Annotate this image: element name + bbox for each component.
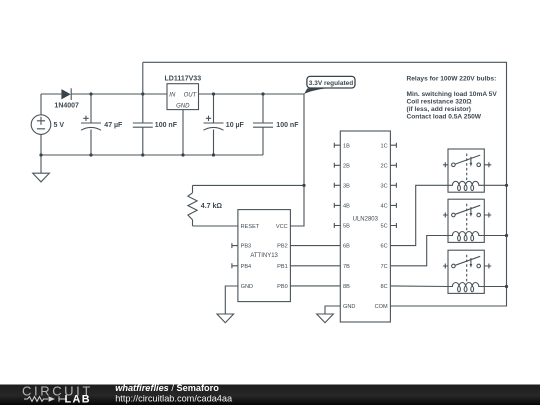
svg-text:RESET: RESET (241, 224, 260, 230)
wire diode cathode to regulator IN (71, 93, 167, 95)
wire resistor to RESET (193, 225, 238, 227)
wire regulator OUT 3.3V to VCC (199, 94, 305, 226)
svg-text:IN: IN (169, 92, 176, 98)
wire 5V top rail from input to relay commons (143, 62, 507, 306)
svg-text:1B: 1B (343, 143, 350, 149)
pin PB4 stub (232, 263, 238, 268)
logo diode glyph (49, 396, 56, 402)
svg-text:GND: GND (176, 104, 190, 110)
wire VCC node to reset pull-up (193, 184, 305, 186)
wire top rail drop to input node (142, 62, 144, 94)
svg-text:COM: COM (375, 304, 388, 310)
svg-text:8B: 8B (343, 284, 350, 290)
svg-text:Contact load 0.5A 250W: Contact load 0.5A 250W (407, 113, 482, 120)
wire ULN GND to ground (325, 306, 340, 314)
diode D1 1N4007 (61, 88, 71, 100)
svg-text:5B: 5B (343, 224, 350, 230)
svg-text:PB1: PB1 (277, 264, 288, 270)
footer bar (0, 385, 540, 405)
svg-text:Coil resistance 320Ω: Coil resistance 320Ω (407, 98, 473, 105)
svg-text:100 nF: 100 nF (155, 122, 178, 129)
wire relay K1 coil to rail (484, 184, 506, 186)
note relay specs (407, 75, 498, 120)
svg-text:Relays for 100W 220V bulbs:: Relays for 100W 220V bulbs: (407, 75, 497, 82)
wire relay K2 coil to rail (484, 235, 506, 237)
svg-text:GND: GND (343, 304, 355, 310)
wire ground bottom rail (41, 154, 263, 156)
pin 5B stub (334, 223, 340, 228)
voltage regulator U1 LD1117V33 (167, 84, 199, 110)
svg-text:LD1117V33: LD1117V33 (165, 76, 202, 83)
svg-text:1N4007: 1N4007 (54, 103, 79, 110)
svg-text:4C: 4C (381, 204, 388, 210)
wire PB1 to 7B (290, 265, 340, 267)
pin 1C stub (390, 143, 396, 148)
pin 3C stub (390, 183, 396, 188)
svg-text:4B: 4B (343, 204, 350, 210)
wire 8C to relay K3 coil (390, 285, 448, 288)
ground ATTINY (217, 314, 234, 323)
transistor array U3 ULN2803 (340, 131, 390, 322)
svg-text:8C: 8C (381, 284, 388, 290)
ground main (33, 155, 50, 182)
svg-text:OUT: OUT (184, 92, 198, 98)
svg-text:GND: GND (241, 284, 253, 290)
svg-text:PB2: PB2 (277, 244, 288, 250)
wire PB2 to 6B (290, 245, 340, 247)
wire source to diode anode (41, 93, 61, 95)
svg-text:5C: 5C (381, 224, 388, 230)
svg-text:47 µF: 47 µF (104, 122, 123, 129)
svg-text:3C: 3C (381, 183, 388, 189)
relay K2 (443, 199, 491, 242)
node 3.3V regulated flag (304, 76, 355, 94)
pin 1B stub (334, 143, 340, 148)
pin 5C stub (390, 223, 396, 228)
pin PB3 stub (232, 243, 238, 248)
wire 7C to relay K2 coil (390, 236, 448, 266)
svg-text:7B: 7B (343, 264, 350, 270)
capacitor C4 100nF (253, 94, 273, 155)
svg-text:whatfireflies / Semaforo: whatfireflies / Semaforo (115, 383, 219, 393)
svg-text:3.3V regulated: 3.3V regulated (309, 80, 353, 87)
logo schematic glyph (24, 396, 67, 402)
relay K1 (443, 149, 491, 192)
voltage source V1 5V (31, 94, 51, 155)
relay K3 (443, 250, 491, 293)
wire regulator GND to ground rail (182, 110, 184, 155)
svg-text:LAB: LAB (65, 393, 91, 405)
capacitor C1 47uF (81, 94, 101, 155)
svg-text:PB4: PB4 (241, 264, 252, 270)
svg-text:PB3: PB3 (241, 244, 252, 250)
svg-text:10 µF: 10 µF (226, 122, 245, 129)
op-amp U2 ATTINY13 (238, 210, 291, 302)
pin 2C stub (390, 163, 396, 168)
pin 4C stub (390, 203, 396, 208)
wire 6C to relay K1 coil (390, 185, 448, 245)
svg-text:7C: 7C (381, 264, 388, 270)
wire ATTINY GND to ground (225, 286, 238, 314)
svg-text:ATTINY13: ATTINY13 (250, 253, 278, 259)
pin 2B stub (334, 163, 340, 168)
resistor R1 4.7k (188, 185, 197, 226)
svg-text:Min. switching load 10mA 5V: Min. switching load 10mA 5V (407, 91, 498, 98)
svg-text:5 V: 5 V (54, 122, 65, 129)
svg-text:1C: 1C (381, 143, 388, 149)
svg-text:ULN2803: ULN2803 (353, 217, 379, 223)
svg-text:3B: 3B (343, 183, 350, 189)
svg-text:100 nF: 100 nF (276, 122, 299, 129)
svg-text:6B: 6B (343, 244, 350, 250)
svg-text:http://circuitlab.com/cada4aa: http://circuitlab.com/cada4aa (115, 394, 233, 404)
svg-text:PB0: PB0 (277, 284, 288, 290)
pin 3B stub (334, 183, 340, 188)
wire relay K3 coil to rail (484, 286, 506, 288)
ground ULN (317, 314, 334, 323)
svg-text:(if less, add resistor): (if less, add resistor) (407, 106, 472, 113)
capacitor C3 10uF (204, 94, 224, 155)
pin 4B stub (334, 203, 340, 208)
capacitor C2 100nF (133, 94, 153, 155)
svg-text:VCC: VCC (276, 224, 288, 230)
svg-text:6C: 6C (381, 244, 388, 250)
svg-text:2B: 2B (343, 163, 350, 169)
svg-text:4.7 kΩ: 4.7 kΩ (201, 203, 223, 210)
wire PB0 to 8B (290, 285, 340, 287)
svg-text:2C: 2C (381, 163, 388, 169)
